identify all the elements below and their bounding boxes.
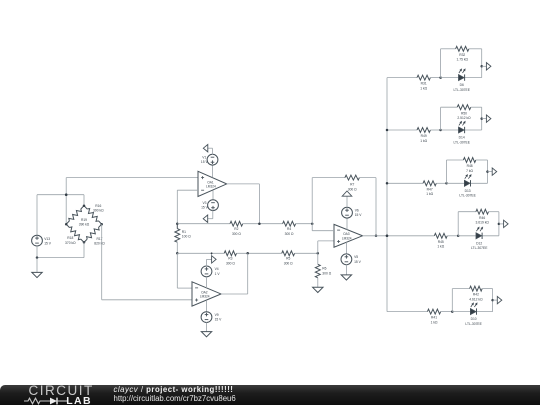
node bridge right — [100, 223, 103, 226]
svg-text:15 V: 15 V — [355, 213, 363, 217]
resistor R32 — [456, 46, 469, 51]
wire LED bottom branch block1 — [441, 77, 482, 79]
wire block left/top block4 — [458, 212, 476, 236]
svg-text:300 Ω: 300 Ω — [285, 232, 294, 236]
wire R2 to OA1 output node — [243, 223, 283, 225]
svg-text:D6: D6 — [460, 83, 464, 87]
wire node C elbow to OA3 + input — [318, 241, 334, 253]
junction OA2 output node — [246, 252, 249, 255]
junction crossing at (66,195) — [65, 193, 68, 196]
svg-text:R6: R6 — [322, 267, 326, 271]
resistor R18 (bridge bottom-left arm) — [66, 224, 84, 242]
wire OA2 output — [221, 253, 248, 294]
wire R1 bottom to OA2 - input — [177, 253, 192, 288]
junction feedback-output — [375, 235, 378, 238]
wire LED bottom branch block5 — [452, 311, 492, 313]
output flag block2 — [486, 115, 491, 122]
resistor R5 — [282, 251, 295, 256]
svg-text:V3: V3 — [202, 201, 206, 205]
svg-text:1 V: 1 V — [215, 272, 221, 276]
svg-text:LM324: LM324 — [206, 185, 216, 189]
resistor R17 (bridge bottom-right arm) — [84, 224, 102, 242]
svg-text:15 V: 15 V — [354, 260, 362, 264]
wire node B to R3 — [177, 252, 224, 254]
wire flag stub block1 — [482, 65, 487, 67]
resistor R17 label — [94, 237, 105, 246]
OA3 label — [342, 232, 352, 240]
wire bridge right node to OA2 + input — [102, 224, 192, 300]
svg-text:LTL-307EE: LTL-307EE — [465, 322, 482, 326]
junction at V13 bottom — [36, 256, 39, 259]
wire V5 supply stub — [345, 242, 347, 254]
R41 label — [431, 316, 438, 325]
R46 label — [476, 216, 490, 225]
junction OA3 feedback node — [311, 222, 314, 225]
voltage source V4 (1V) — [201, 266, 212, 277]
svg-text:1 kΩ: 1 kΩ — [426, 192, 433, 196]
junction block input block4 — [457, 235, 460, 238]
wire V1 supply stub — [212, 165, 214, 178]
wire feed R47 — [387, 182, 423, 184]
svg-text:4.612 kΩ: 4.612 kΩ — [469, 298, 483, 302]
resistor R16 label — [93, 204, 104, 213]
svg-text:300 Ω: 300 Ω — [232, 232, 241, 236]
svg-text:V1: V1 — [202, 155, 206, 159]
wire OA1 - input — [177, 190, 198, 224]
svg-text:300 Ω: 300 Ω — [226, 262, 235, 266]
svg-text:LTL-307EE: LTL-307EE — [471, 246, 488, 250]
junction node B (R1/R3) — [176, 252, 179, 255]
svg-text:R49: R49 — [421, 134, 427, 138]
ground below V9 — [201, 332, 211, 337]
svg-text:300 Ω: 300 Ω — [284, 262, 293, 266]
net flag at V3 — [203, 215, 208, 222]
voltage source V3 — [208, 200, 219, 211]
svg-text:LTL-307EE: LTL-307EE — [453, 140, 470, 144]
wire V9 ground stub — [206, 322, 208, 331]
svg-text:V6: V6 — [355, 208, 359, 212]
wire flag stub block5 — [493, 299, 498, 301]
voltage source V1 — [207, 154, 218, 165]
svg-text:R31: R31 — [421, 82, 427, 86]
svg-text:15 V: 15 V — [44, 242, 52, 246]
wire LED bottom branch block2 — [441, 129, 482, 131]
resistor R19 (bridge top-left arm) — [66, 206, 84, 225]
svg-text:1 kΩ: 1 kΩ — [431, 321, 438, 325]
wire V6 top stub — [346, 196, 348, 207]
output flag block1 — [486, 63, 491, 70]
wire V13 bottom to bridge bottom — [37, 242, 84, 257]
wire R4 to OA3 feedback node — [296, 223, 313, 225]
wire R47 to block — [436, 182, 446, 184]
footer title line — [114, 385, 234, 394]
wire block top-right/right block4 — [489, 212, 499, 236]
svg-text:V5: V5 — [354, 255, 358, 259]
junction node C (R5/R6/OA3+) — [317, 252, 320, 255]
junction bus-output — [386, 235, 389, 238]
R6 label — [322, 267, 331, 276]
wire flag stub to R3 wire — [211, 253, 213, 255]
R31 label — [420, 82, 427, 91]
svg-text:R18: R18 — [67, 236, 73, 240]
svg-text:7 kΩ: 7 kΩ — [466, 169, 473, 173]
svg-text:R5: R5 — [286, 257, 290, 261]
wire flag stub block3 — [488, 171, 493, 173]
wire block top-right/right block1 — [469, 49, 482, 78]
svg-text:R4: R4 — [287, 227, 291, 231]
resistor R31 — [417, 75, 430, 80]
LED D13 — [464, 174, 471, 186]
wire flag stub block2 — [482, 118, 487, 120]
LED D14 — [459, 121, 466, 133]
net flag at V4 — [212, 256, 217, 263]
svg-text:LTL-307EE: LTL-307EE — [459, 194, 476, 198]
svg-text:1.75 kΩ: 1.75 kΩ — [457, 58, 469, 62]
OA2 label — [200, 290, 210, 298]
wire OA3 feedback left — [312, 178, 345, 224]
svg-text:D14: D14 — [459, 136, 465, 140]
svg-text:390 kΩ: 390 kΩ — [79, 223, 90, 227]
D14 label — [453, 136, 470, 145]
R49 label — [420, 134, 427, 143]
wire R3 to OA2 output node — [237, 252, 282, 254]
D6 label — [453, 83, 470, 92]
wire block left/top block3 — [447, 160, 464, 183]
junction bus tap R49 — [386, 129, 389, 132]
svg-text:300 Ω: 300 Ω — [348, 188, 357, 192]
wire V4 bottom supply stub — [206, 277, 208, 288]
svg-text:LM324: LM324 — [200, 295, 210, 299]
svg-text:2.512 kΩ: 2.512 kΩ — [457, 116, 471, 120]
junction bus tap R45 — [386, 235, 389, 238]
resistor R2 — [230, 221, 243, 226]
resistor R42 — [470, 286, 483, 291]
voltage source V5 — [341, 254, 352, 265]
resistor R16 (bridge top-right arm) — [84, 206, 102, 225]
svg-text:R47: R47 — [427, 187, 433, 191]
junction flag stub — [211, 252, 213, 254]
R5 label — [284, 257, 293, 266]
V6 label — [355, 208, 363, 217]
net flag at V1 (-15V rail) — [203, 145, 208, 152]
R3 label — [226, 257, 235, 266]
svg-text:V13: V13 — [44, 237, 50, 241]
node bridge top — [83, 204, 86, 207]
V5 label — [354, 255, 362, 264]
wire LED bottom branch block4 — [458, 235, 499, 237]
resistor R48 — [463, 158, 475, 163]
CircuitLab logo text CIRCUIT — [29, 383, 94, 398]
wire OA3 - input elbow — [312, 224, 334, 231]
wire block top-right/right block5 — [482, 289, 492, 312]
svg-text:15 V: 15 V — [215, 318, 223, 322]
wire block left/top block2 — [441, 107, 458, 130]
ground below V13 — [32, 272, 42, 277]
wire V1 top elbow — [208, 148, 213, 154]
output flag block5 — [497, 296, 502, 303]
svg-text:D12: D12 — [476, 241, 482, 245]
V1 label — [201, 155, 209, 164]
wire R49 to block — [430, 129, 440, 131]
junction OA1 output node — [258, 222, 261, 225]
svg-text:V4: V4 — [215, 267, 219, 271]
wire block left/top block5 — [452, 289, 469, 312]
resistor R7 — [345, 175, 360, 180]
wire flag stub block4 — [499, 223, 504, 225]
op-amp OA2 — [192, 282, 221, 306]
svg-text:1 kΩ: 1 kΩ — [420, 87, 427, 91]
voltage source V13 — [32, 235, 43, 246]
resistor R49 — [417, 128, 430, 133]
wire block left/top block1 — [441, 49, 456, 78]
svg-text:370 kΩ: 370 kΩ — [65, 241, 76, 245]
junction block input block1 — [439, 76, 442, 79]
wire OA3 feedback right — [359, 178, 376, 236]
R4 label — [285, 227, 294, 236]
wire R45 to block — [447, 235, 458, 237]
wire block top-right/right block3 — [476, 160, 488, 183]
ground below R6 — [313, 287, 323, 292]
wire R41 to block — [441, 311, 453, 313]
LED D12 — [476, 227, 483, 239]
resistor R47 — [423, 181, 436, 186]
R32 label — [457, 53, 469, 62]
junction block input block2 — [439, 129, 442, 132]
svg-text:R41: R41 — [431, 316, 437, 320]
voltage source V6 — [342, 207, 353, 218]
wire feed R49 — [387, 129, 417, 131]
resistor R4 — [283, 221, 296, 226]
V13 label — [44, 237, 52, 246]
R45 label — [437, 240, 444, 249]
R1 label — [182, 230, 191, 239]
junction output flag block3 — [486, 170, 489, 173]
output flag block3 — [492, 168, 497, 175]
svg-text:R42: R42 — [473, 293, 479, 297]
wire OA3 output to bus — [363, 235, 388, 237]
svg-text:100 Ω: 100 Ω — [182, 235, 191, 239]
svg-text:LTL-307EE: LTL-307EE — [453, 88, 470, 92]
resistor R3 — [224, 251, 236, 256]
wire V13 top to bridge top node — [37, 195, 84, 236]
V9 label — [215, 313, 223, 322]
svg-text:R46: R46 — [479, 216, 485, 220]
V4 label — [215, 267, 221, 276]
junction output flag block2 — [480, 117, 483, 120]
R47 label — [426, 187, 433, 196]
ground below V5 — [341, 275, 351, 280]
wire feed R31 — [387, 77, 417, 79]
wire feed R41 — [387, 311, 427, 313]
V3 label — [201, 201, 209, 210]
svg-text:V9: V9 — [215, 313, 219, 317]
D12 label — [471, 241, 488, 250]
svg-text:15 V: 15 V — [201, 206, 209, 210]
R7 label — [348, 183, 357, 192]
R42 label — [469, 293, 483, 302]
voltage source V9 — [201, 312, 212, 323]
wire ground stub V13 — [36, 258, 38, 273]
footer bar — [0, 385, 540, 406]
wire V3 bottom elbow — [208, 210, 213, 218]
node A junction (R1/R2/OA1-) — [176, 222, 179, 225]
svg-text:820 kΩ: 820 kΩ — [94, 242, 105, 246]
svg-text:15 V: 15 V — [201, 160, 209, 164]
svg-text:R2: R2 — [234, 227, 238, 231]
svg-text:LM324: LM324 — [342, 236, 352, 240]
junction block input block5 — [451, 310, 454, 313]
svg-text:1 kΩ: 1 kΩ — [437, 245, 444, 249]
svg-text:D13: D13 — [465, 189, 471, 193]
wire node A to R2 — [177, 223, 230, 225]
wire V5 ground stub — [345, 265, 347, 275]
D10 label — [465, 317, 482, 326]
resistor R45 — [434, 233, 447, 238]
wire V3 supply stub — [212, 191, 214, 201]
svg-text:R7: R7 — [350, 183, 354, 187]
wire feed R45 — [387, 235, 434, 237]
svg-text:R16: R16 — [95, 204, 101, 208]
wire R5 to node C — [295, 252, 318, 254]
junction output flag block5 — [491, 299, 494, 302]
wire LED bus vertical — [386, 78, 388, 312]
node bridge bottom — [83, 241, 86, 244]
logo resistor-diode symbol — [24, 396, 70, 406]
junction output flag block1 — [480, 65, 483, 68]
wire OA1 output — [227, 184, 260, 224]
svg-text:R1: R1 — [182, 230, 186, 234]
LED D10 — [470, 303, 477, 315]
resistor R19 label — [79, 218, 90, 227]
wire LED bottom branch block3 — [447, 182, 488, 184]
footer url line — [114, 394, 236, 403]
svg-text:R50: R50 — [461, 111, 467, 115]
D13 label — [459, 189, 476, 198]
resistor R1 — [175, 224, 180, 254]
op-amp OA1 — [198, 171, 227, 196]
svg-text:R45: R45 — [438, 240, 444, 244]
svg-text:R48: R48 — [467, 164, 473, 168]
wire V9 supply stub — [206, 300, 208, 312]
R50 label — [457, 111, 471, 120]
svg-text:1 kΩ: 1 kΩ — [420, 139, 427, 143]
svg-text:3.619 kΩ: 3.619 kΩ — [476, 221, 490, 225]
wire R31 to block — [430, 77, 440, 79]
svg-text:D10: D10 — [471, 317, 477, 321]
resistor R50 — [457, 105, 471, 110]
junction block input block3 — [445, 182, 448, 185]
R48 label — [466, 164, 473, 173]
junction output flag block4 — [498, 223, 501, 226]
resistor R6 — [315, 253, 320, 287]
R2 label — [232, 227, 241, 236]
resistor R18 label — [65, 236, 76, 245]
svg-text:R19: R19 — [81, 218, 87, 222]
svg-text:R32: R32 — [459, 53, 465, 57]
svg-text:390 kΩ: 390 kΩ — [93, 209, 104, 213]
OA1 label — [206, 180, 216, 188]
svg-text:R3: R3 — [228, 257, 232, 261]
LED D6 — [459, 69, 466, 81]
resistor R41 — [427, 309, 440, 314]
output flag block4 — [504, 220, 509, 227]
resistor R46 — [476, 209, 489, 214]
op-amp OA3 — [334, 224, 363, 247]
wire V6 supply stub — [346, 218, 348, 230]
node bridge left — [65, 223, 68, 226]
wire block top-right/right block2 — [471, 107, 482, 130]
wire V4 top elbow — [207, 259, 212, 266]
svg-text:300 Ω: 300 Ω — [322, 271, 331, 275]
wire OA1 + input feed from bridge left node — [66, 178, 198, 225]
junction bus tap R47 — [386, 182, 389, 185]
power flag above V6 — [342, 191, 352, 196]
